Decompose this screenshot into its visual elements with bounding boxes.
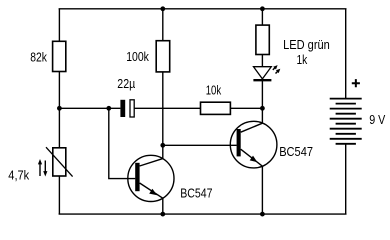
svg-text:LED grün: LED grün [283,37,330,52]
svg-text:BC547: BC547 [279,144,313,159]
svg-text:BC547: BC547 [180,186,212,201]
svg-text:9 V: 9 V [369,112,385,127]
svg-text:10k: 10k [206,83,222,98]
svg-text:100k: 100k [126,49,149,64]
svg-text:1k: 1k [297,52,308,67]
svg-text:4,7k: 4,7k [8,167,29,182]
svg-text:82k: 82k [30,50,47,65]
svg-text:22µ: 22µ [117,76,135,91]
